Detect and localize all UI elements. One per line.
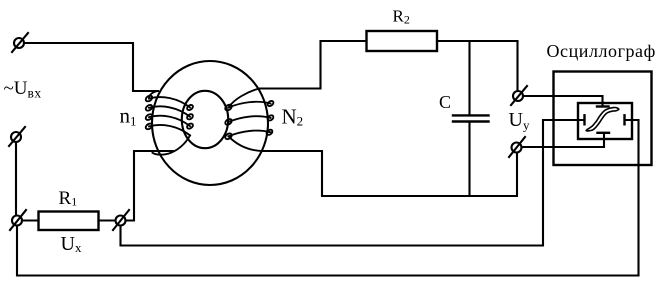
toroid core outer [152, 61, 268, 185]
wire T3 to R1 [22, 219, 39, 221]
wire T1 to primary winding top [25, 43, 158, 91]
svg-text:C: C [439, 92, 451, 112]
terminal T5 (Uy upper) [511, 86, 527, 105]
toroid core inner [182, 91, 228, 148]
terminal T4 (Ux right) [113, 210, 129, 230]
capacitor C top wire [468, 41, 470, 114]
Y-plate bottom bar [598, 132, 610, 134]
wire T5 to Y-plate top [523, 96, 603, 106]
wire N2 top to R2 [259, 41, 367, 89]
terminal T1 (input upper) [12, 33, 28, 52]
svg-text:Uy: Uy [509, 109, 530, 132]
svg-text:~Uвх: ~Uвх [4, 78, 42, 101]
svg-text:R1: R1 [59, 188, 78, 209]
X-plate right bar [623, 115, 625, 124]
terminal T6 (Uy lower) [509, 137, 525, 157]
svg-text:R2: R2 [393, 7, 410, 27]
svg-text:Ux: Ux [61, 233, 82, 255]
resistor R2 [367, 31, 438, 51]
wire T6 to Y-plate bottom [522, 134, 605, 148]
secondary winding N2 turns [224, 89, 274, 152]
terminal T3 (Ux left) [10, 210, 26, 230]
wire R2 to T5 node [437, 41, 518, 91]
svg-text:N2: N2 [282, 105, 304, 129]
capacitor C bottom wire [468, 123, 470, 196]
hysteresis loop on screen [586, 108, 619, 131]
capacitor C plates [453, 114, 489, 116]
resistor R1 [39, 212, 99, 231]
primary winding n1 turns [145, 91, 194, 155]
terminal T2 (input lower) [9, 127, 25, 146]
wire T2 down to T3 [15, 142, 17, 215]
oscilloscope outer box [554, 72, 652, 166]
wire R1 to T4 [99, 219, 116, 221]
Y-plate top bar [597, 105, 609, 107]
X-plate left bar [583, 115, 585, 124]
wire N2 bottom to T6 node [262, 151, 517, 196]
wire T4 up to primary winding bottom [126, 151, 174, 221]
svg-text:Осциллограф: Осциллограф [547, 41, 656, 61]
CRT screen inner box [578, 103, 632, 139]
svg-text:n1: n1 [120, 104, 137, 129]
wire T3 down, bottom line y=275, up to X-plate right [17, 120, 639, 276]
wire T4 down to X-plate left (line y=245) [121, 120, 585, 246]
